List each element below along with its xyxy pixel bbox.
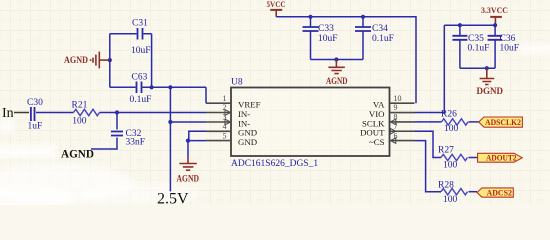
svg-text:~CS: ~CS <box>369 137 385 147</box>
svg-text:C63: C63 <box>132 73 148 83</box>
svg-text:0.1uF: 0.1uF <box>130 95 152 105</box>
svg-text:4: 4 <box>223 122 227 131</box>
node junction at R21/C32 <box>115 110 119 114</box>
node junction 2.5V vertical <box>168 85 172 89</box>
capacitor C32 <box>91 113 145 150</box>
svg-text:R21: R21 <box>72 100 88 110</box>
wire: 3.3V rail <box>444 24 495 26</box>
ground DGND <box>477 68 504 96</box>
svg-text:ADSCLK2: ADSCLK2 <box>485 118 521 127</box>
IC U8 ADC161S626_DGS_1 <box>231 78 390 170</box>
svg-text:100: 100 <box>72 116 87 126</box>
wire: pin3 <box>170 121 206 123</box>
resistor R28 <box>438 181 467 206</box>
svg-text:3.3VCC: 3.3VCC <box>481 5 508 15</box>
node junction pin5 <box>186 139 190 143</box>
pin 10 VA <box>373 94 415 110</box>
wire: pin8 to R26 <box>415 121 442 123</box>
wire: C30 to R21 <box>36 112 74 114</box>
svg-text:ADC161S626_DGS_1: ADC161S626_DGS_1 <box>231 159 318 169</box>
pin 4 GND <box>206 122 257 138</box>
resistor R21 <box>72 100 100 126</box>
svg-text:C31: C31 <box>132 19 148 29</box>
pin 8 SCLK <box>362 113 415 129</box>
node junction C33 <box>308 15 312 19</box>
port flag ADCS2 <box>477 188 513 198</box>
power symbol 3.3VCC <box>481 5 508 25</box>
capacitor C35 <box>452 25 489 68</box>
svg-text:C36: C36 <box>500 34 516 44</box>
svg-text:U8: U8 <box>231 78 243 88</box>
svg-text:AGND: AGND <box>61 148 94 160</box>
wire: pin4/pin5 to AGND <box>188 131 206 158</box>
wire: C35/C36 bottom join <box>460 67 495 69</box>
wire: In port stub <box>14 112 29 114</box>
node junction DGND stem <box>485 66 489 70</box>
capacitor C31 <box>131 19 151 56</box>
pin 6 ~CS <box>369 131 415 147</box>
svg-text:5VCC: 5VCC <box>267 0 286 9</box>
pin 5 GND <box>206 131 257 147</box>
svg-text:R28: R28 <box>438 181 454 191</box>
node junction right rail <box>150 85 154 89</box>
svg-text:C35: C35 <box>468 34 484 44</box>
wire: 5V rail <box>276 17 416 103</box>
svg-text:R27: R27 <box>438 146 454 156</box>
svg-text:ADOUT2: ADOUT2 <box>486 154 517 163</box>
svg-text:10uF: 10uF <box>131 46 151 56</box>
capacitor C33 <box>303 17 338 60</box>
capacitor C36 <box>488 25 519 68</box>
svg-text:C34: C34 <box>372 24 388 34</box>
svg-text:2.5V: 2.5V <box>157 191 189 206</box>
svg-text:5: 5 <box>223 131 227 140</box>
wire: R28 to flag <box>469 191 478 193</box>
svg-text:10uF: 10uF <box>500 44 520 54</box>
svg-text:C30: C30 <box>27 98 43 108</box>
wire: pin9 to 3.3V rail <box>415 25 445 112</box>
port flag ADOUT2 <box>478 153 523 162</box>
capacitor C34 <box>355 17 394 60</box>
node junction center ground <box>334 57 338 61</box>
svg-text:100: 100 <box>443 161 458 171</box>
wire: R21 to pin2 <box>100 112 207 114</box>
svg-text:C33: C33 <box>318 24 334 34</box>
svg-text:AGND: AGND <box>177 174 200 184</box>
svg-text:AGND: AGND <box>326 76 348 86</box>
node junction C36 <box>493 23 497 27</box>
pin 1 VREF <box>206 94 261 110</box>
svg-text:3: 3 <box>223 113 227 122</box>
pin 2 IN- <box>206 103 250 119</box>
node junction C34 <box>361 15 365 19</box>
pin 3 IN- <box>206 113 250 129</box>
wire: pin6 to R28 <box>415 141 442 192</box>
ground AGND center <box>326 60 348 87</box>
resistor R26 <box>441 110 468 135</box>
wire: pin7 to R27 <box>415 131 442 157</box>
wire: R26 to flag <box>469 121 480 123</box>
power symbol 5VCC <box>267 0 286 17</box>
svg-text:DGND: DGND <box>477 86 504 96</box>
svg-text:ADCS2: ADCS2 <box>487 189 513 198</box>
wire: R27 to flag <box>469 157 478 159</box>
svg-text:GND: GND <box>238 137 257 147</box>
port flag ADSCLK2 <box>479 117 523 127</box>
svg-text:AGND: AGND <box>64 55 88 65</box>
svg-text:100: 100 <box>443 195 458 205</box>
resistor R27 <box>438 146 467 171</box>
svg-text:0.1uF: 0.1uF <box>372 34 394 44</box>
svg-text:IN-: IN- <box>238 109 250 119</box>
svg-text:6: 6 <box>394 131 398 140</box>
svg-text:7: 7 <box>394 122 398 131</box>
svg-text:33nF: 33nF <box>126 138 146 148</box>
svg-text:R26: R26 <box>441 110 457 120</box>
pin 7 DOUT <box>360 122 414 138</box>
capacitor C30 <box>27 98 43 132</box>
svg-text:8: 8 <box>394 113 398 122</box>
ground AGND left <box>64 52 112 69</box>
wire: C63 row to VREF <box>110 87 206 103</box>
capacitor C63 <box>130 73 152 106</box>
wire: C31/C63 left rail <box>109 34 111 88</box>
ground AGND bottom <box>177 158 200 184</box>
node junction C35 <box>458 23 462 27</box>
svg-text:1uF: 1uF <box>28 122 43 132</box>
svg-text:9: 9 <box>394 103 398 112</box>
wire: C31 top row <box>110 33 152 35</box>
pin 9 VIO <box>369 103 415 119</box>
svg-text:1: 1 <box>223 94 227 103</box>
svg-text:0.1uF: 0.1uF <box>468 44 490 54</box>
svg-text:In: In <box>2 106 14 121</box>
wire: C31/C63 right rail <box>151 34 153 88</box>
wire: C33/C34 bottom join <box>311 59 364 61</box>
svg-text:2: 2 <box>223 103 227 112</box>
svg-text:10uF: 10uF <box>318 34 338 44</box>
node junction pin3 <box>168 120 172 124</box>
svg-text:100: 100 <box>444 124 459 134</box>
svg-text:10: 10 <box>394 94 402 103</box>
wire: 2.5V vertical <box>169 87 171 191</box>
